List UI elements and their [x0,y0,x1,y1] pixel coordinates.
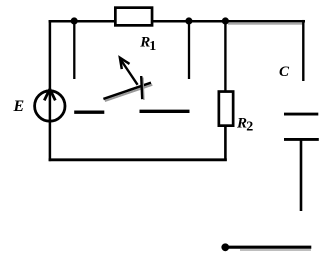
switch right contact [140,110,190,113]
label R2 [236,116,253,135]
capacitor C top plate [284,113,318,116]
wire left vertical [49,20,52,161]
wire R2 top lead [224,21,226,91]
switch tick shadow [143,78,144,101]
node A junction dot [71,17,78,24]
capacitor C bottom lead [300,139,303,211]
switch left contact [74,111,104,114]
wire top horizontal [49,20,305,23]
current source E arrowhead [44,89,55,100]
bottom terminal wire [225,246,311,249]
node B junction dot [185,17,192,24]
wire stub from node B down [188,21,190,79]
bottom terminal dot [221,243,229,251]
node C junction dot [222,17,229,24]
switch tick [141,76,142,99]
resistor R2 [219,92,233,126]
switch arrow shaft [121,60,138,85]
svg-text:2: 2 [246,120,253,135]
bottom terminal wire shadow [240,249,311,251]
wire capacitor top lead [302,20,304,81]
wire R2 bottom lead [224,127,227,162]
switch blade [103,83,151,99]
svg-text:E: E [13,98,25,115]
current source E circle [35,91,65,121]
capacitor C bottom plate [284,138,319,141]
svg-text:1: 1 [149,39,156,54]
wire bottom horizontal [49,158,227,161]
label R1 [139,34,156,53]
resistor R1 [115,8,152,26]
wire stub from node A down [73,21,75,79]
wire top right shadow [228,23,305,25]
svg-text:C: C [279,64,290,80]
switch blade shadow [105,85,153,101]
switch arrowhead [120,58,130,69]
